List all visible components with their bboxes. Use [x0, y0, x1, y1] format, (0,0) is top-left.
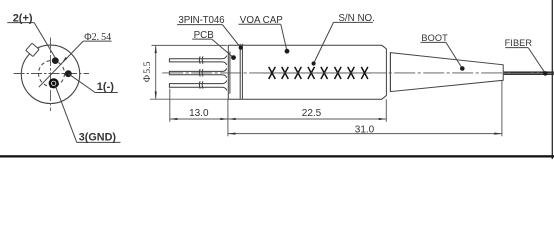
phi5.5 dimension line	[155, 46, 157, 99]
3PIN-T046 leader	[177, 25, 241, 48]
pin 3 (GND) dot	[49, 78, 59, 88]
pin middle (side view)	[169, 68, 226, 78]
frame right border	[551, 0, 553, 159]
svg-text:1(-): 1(-)	[97, 81, 114, 93]
FIBER leader	[505, 48, 545, 74]
svg-text:31.0: 31.0	[355, 125, 375, 136]
PCB leader dot	[231, 55, 236, 60]
PCB leader	[192, 39, 233, 58]
pin top break marks	[199, 56, 203, 63]
side view horizontal centerline	[162, 72, 553, 74]
dim 13.0 extension line left	[169, 89, 171, 122]
pin top (side view)	[169, 56, 226, 65]
svg-text:FIBER: FIBER	[505, 38, 533, 48]
dim 13.0 arrows	[170, 118, 178, 120]
FIBER leader dot	[543, 71, 548, 76]
1(-) leader	[68, 74, 118, 93]
frame bottom border	[0, 155, 554, 157]
pin 2 dot	[52, 57, 59, 64]
boot outline	[390, 53, 503, 92]
dim 22.5 arrows	[228, 118, 236, 120]
svg-text:Φ2.54: Φ2.54	[84, 32, 111, 43]
dim 31.0 line	[228, 133, 502, 135]
S/N NO. leader dot	[312, 61, 316, 65]
pin bottom break marks	[199, 81, 203, 88]
index tab	[26, 43, 39, 56]
dim 31.0 right extension	[501, 81, 503, 137]
3(GND) leader	[55, 85, 121, 142]
svg-text:2(+): 2(+)	[13, 13, 33, 25]
svg-text:22.5: 22.5	[302, 108, 322, 119]
fiber	[504, 72, 554, 74]
dim 22.5 line	[228, 118, 386, 120]
BOOT leader dot	[460, 66, 465, 71]
header edge line	[229, 52, 231, 94]
svg-text:BOOT: BOOT	[421, 33, 448, 43]
PCB edge lines	[240, 44, 242, 99]
pin middle break marks	[199, 69, 203, 76]
svg-text:VOA CAP: VOA CAP	[240, 15, 283, 26]
svg-text:3(GND): 3(GND)	[79, 131, 117, 143]
S/N NO. leader	[314, 22, 373, 63]
can outer circle	[21, 45, 79, 103]
body (VOA cap) outline	[228, 45, 386, 99]
horizontal centerline	[14, 73, 90, 75]
BOOT leader	[421, 42, 463, 68]
2(+) leader	[7, 23, 55, 58]
dim 31.0 arrows	[228, 133, 236, 135]
svg-text:13.0: 13.0	[189, 108, 209, 119]
vertical centerline	[50, 38, 52, 112]
dim 13.0 line	[170, 118, 228, 120]
VOA CAP leader dot	[285, 49, 290, 54]
VOA CAP leader	[239, 24, 288, 51]
svg-text:3PIN-T046: 3PIN-T046	[178, 15, 225, 26]
svg-text:PCB: PCB	[194, 30, 215, 41]
boot left face	[389, 53, 391, 92]
serial number X marks	[262, 72, 371, 74]
svg-text:Φ5.5: Φ5.5	[142, 61, 153, 82]
pin 1 dot	[65, 70, 72, 77]
shared extension line	[227, 100, 229, 137]
3PIN-T046 leader dot	[239, 46, 243, 50]
pitch circle (dashed)	[39, 61, 65, 87]
phi5.5 arrows	[155, 46, 157, 54]
pin bottom (side view)	[169, 81, 226, 91]
phi5.5 extension lines	[150, 45, 228, 99]
phi2.54 arrowhead	[62, 57, 67, 62]
svg-text:S/N NO.: S/N NO.	[338, 13, 374, 24]
phi2.54 leader	[39, 41, 112, 87]
dim 22.5 right extension	[385, 99, 387, 121]
